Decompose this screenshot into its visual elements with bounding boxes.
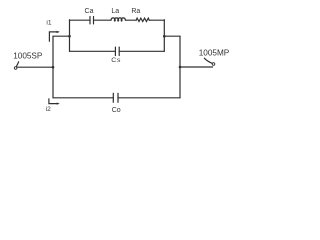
wire top branch: corner to Ca — [70, 19, 91, 21]
svg-text:Co: Co — [112, 107, 121, 114]
wire bottom branch right — [118, 97, 180, 99]
wire Cs branch left — [70, 50, 116, 52]
wire Cs branch right — [119, 50, 164, 52]
capacitor Co — [113, 93, 118, 102]
svg-text:1005SP: 1005SP — [13, 51, 43, 60]
wire Ra to top-right corner — [149, 19, 164, 21]
wire right vertical of resonator loop — [163, 20, 165, 52]
inductor La — [111, 18, 125, 21]
svg-text:1005MP: 1005MP — [199, 48, 230, 57]
arrow i2 — [49, 99, 60, 105]
wire Ca to La — [94, 19, 112, 21]
svg-text:i2: i2 — [46, 106, 51, 113]
node junction right trunk/terminal — [179, 66, 182, 69]
svg-text:Ra: Ra — [131, 8, 140, 15]
wire left vertical of resonator loop — [69, 20, 71, 52]
svg-text:La: La — [111, 8, 119, 15]
svg-text:Ca: Ca — [85, 8, 94, 15]
terminal 1005MP (right) — [204, 58, 215, 65]
node junction left (69.5,36) — [68, 35, 71, 38]
arrow i1 — [49, 31, 60, 42]
resistor Ra — [136, 18, 149, 21]
capacitor Ca — [90, 17, 94, 24]
wire bottom branch left — [53, 97, 113, 99]
wire right trunk to terminal — [180, 66, 213, 68]
terminal 1005SP (left) — [14, 62, 18, 69]
wire left terminal to trunk — [18, 66, 53, 68]
capacitor Cs — [115, 47, 119, 55]
node junction trunk/left terminal — [52, 66, 55, 69]
wire La to Ra — [125, 19, 136, 21]
wire right node to right trunk — [164, 35, 180, 37]
svg-text:i1: i1 — [46, 20, 51, 27]
wire right trunk vertical — [179, 36, 181, 98]
wire left trunk vertical — [53, 36, 70, 98]
svg-text:Cs: Cs — [111, 57, 121, 64]
node junction right (164.3,36) — [163, 35, 166, 38]
